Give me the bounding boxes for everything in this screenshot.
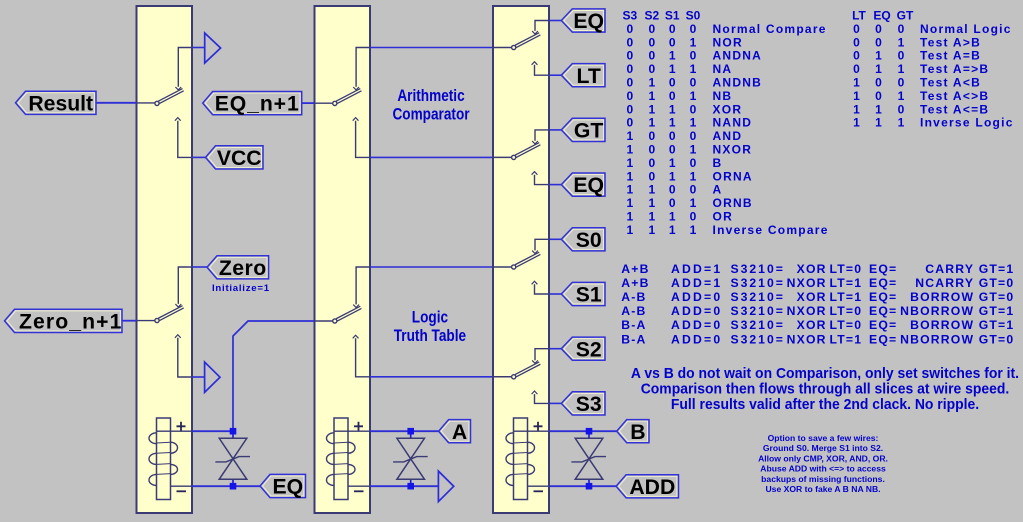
svg-text:B-AADD=0S3210=XORLT=0EQ=BORROW: B-AADD=0S3210=XORLT=0EQ=BORROWGT=1 xyxy=(621,318,1014,332)
relay coil L3 xyxy=(506,418,543,500)
svg-text:GT: GT xyxy=(574,120,603,143)
note comparison timing xyxy=(631,366,1019,413)
svg-text:LTEQGT: LTEQGT xyxy=(852,9,914,23)
svg-text:0011NA: 0011NA xyxy=(626,62,732,76)
svg-text:Logic: Logic xyxy=(412,308,448,326)
svg-text:Ground S0. Merge S1 into S2.: Ground S0. Merge S1 into S2. xyxy=(763,443,883,453)
svg-text:1100A: 1100A xyxy=(626,183,722,197)
wire L3+ to B label xyxy=(514,430,617,432)
svg-text:LT: LT xyxy=(576,65,600,88)
relay coil L2 xyxy=(327,418,364,500)
svg-text:111Inverse Logic: 111Inverse Logic xyxy=(853,116,1013,130)
svg-text:Truth Table: Truth Table xyxy=(394,327,466,345)
net label ADD xyxy=(616,475,678,499)
wire L3- to ADD label xyxy=(528,485,617,487)
svg-text:Zero: Zero xyxy=(219,257,267,280)
bidirectional diode D1 xyxy=(215,428,250,490)
switch SW5 (EQ/LT select) xyxy=(512,21,562,76)
svg-text:A+BADD=1S3210=NXORLT=1EQ=NCARR: A+BADD=1S3210=NXORLT=1EQ=NCARRYGT=0 xyxy=(621,276,1014,290)
heading Arithmetic Comparator xyxy=(392,87,469,124)
wire SW4 pivot to diode D1 node xyxy=(233,321,332,429)
svg-text:Comparator: Comparator xyxy=(392,105,469,123)
svg-text:S1: S1 xyxy=(576,284,602,307)
svg-text:Use XOR to fake A B NA NB.: Use XOR to fake A B NA NB. xyxy=(765,484,880,494)
net label A xyxy=(439,420,471,444)
svg-text:0111NAND: 0111NAND xyxy=(626,116,752,130)
svg-text:EQ: EQ xyxy=(573,174,604,197)
svg-text:Initialize=1: Initialize=1 xyxy=(212,283,270,294)
buffer amplifier B1 xyxy=(205,33,221,63)
svg-text:100Test A<B: 100Test A<B xyxy=(853,76,981,90)
relay coil L1 xyxy=(149,418,186,500)
svg-text:0101NB: 0101NB xyxy=(626,89,732,103)
note wire-saving options xyxy=(758,433,888,494)
bidirectional diode D3 xyxy=(571,428,606,490)
table arithmetic mode settings xyxy=(621,262,1014,347)
net label VCC xyxy=(206,146,264,170)
switch SW8 (S2/S3 select) xyxy=(512,349,562,404)
svg-text:0100ANDNB: 0100ANDNB xyxy=(626,76,762,90)
svg-text:S3: S3 xyxy=(576,393,602,416)
svg-text:ADD: ADD xyxy=(629,476,675,499)
net label S2 (stack 7) xyxy=(561,337,605,361)
switch SW1 (Result hold) xyxy=(155,48,206,158)
svg-text:Arithmetic: Arithmetic xyxy=(397,87,464,105)
svg-text:S3S2S1S0: S3S2S1S0 xyxy=(622,9,700,23)
svg-text:EQ: EQ xyxy=(573,10,604,33)
wire L1+ to D1/EQ net xyxy=(157,430,234,432)
net label S1 (stack 6) xyxy=(561,282,605,306)
svg-text:101Test A<>B: 101Test A<>B xyxy=(853,89,989,103)
svg-text:A: A xyxy=(452,421,467,444)
net label Zero xyxy=(207,256,269,280)
bidirectional diode D2 xyxy=(393,428,428,490)
svg-text:1101ORNB: 1101ORNB xyxy=(626,196,752,210)
net label EQ (slice1 out) xyxy=(260,474,306,498)
switch SW6 (GT/EQ select) xyxy=(512,130,562,185)
svg-text:1001NXOR: 1001NXOR xyxy=(626,143,752,157)
wire into SW6 pivot xyxy=(492,156,511,158)
net label S0 (stack 5) xyxy=(561,228,605,252)
net label GT (stack 3) xyxy=(561,118,605,142)
svg-text:A+BADD=1S3210=XORLT=0EQ=CARRYG: A+BADD=1S3210=XORLT=0EQ=CARRYGT=1 xyxy=(621,262,1014,276)
svg-text:EQ: EQ xyxy=(272,476,303,499)
svg-text:Allow only CMP, XOR, AND, OR.: Allow only CMP, XOR, AND, OR. xyxy=(758,453,888,463)
svg-text:010Test A=B: 010Test A=B xyxy=(853,49,981,63)
svg-text:Zero_n+1: Zero_n+1 xyxy=(19,311,123,334)
svg-text:1110OR: 1110OR xyxy=(626,210,733,224)
net label Zero_n+1 xyxy=(5,309,123,333)
svg-text:011Test A=>B: 011Test A=>B xyxy=(853,62,989,76)
buffer amplifier B3 xyxy=(438,471,453,502)
svg-text:backups of missing functions.: backups of missing functions. xyxy=(761,474,885,484)
svg-text:S2: S2 xyxy=(576,338,602,361)
svg-text:001Test A>B: 001Test A>B xyxy=(853,35,981,49)
wire Result to SW1 xyxy=(96,102,155,104)
svg-text:110Test A<=B: 110Test A<=B xyxy=(853,102,989,116)
svg-text:0001NOR: 0001NOR xyxy=(626,35,742,49)
net label EQ_n+1 xyxy=(203,92,302,116)
svg-text:0110XOR: 0110XOR xyxy=(626,102,742,116)
wire into SW7 pivot xyxy=(492,266,511,268)
svg-text:1010B: 1010B xyxy=(626,156,722,170)
wire into SW8 pivot xyxy=(492,376,511,378)
wire L1- to EQ label xyxy=(171,485,261,487)
svg-text:S0: S0 xyxy=(576,229,602,252)
switch SW3 (EQ_n+1 select) xyxy=(333,48,493,158)
switch SW7 (S0/S1 select) xyxy=(512,239,562,294)
relay slice 1 (result/zero latch) xyxy=(137,6,193,513)
wire L2- to buffer xyxy=(348,485,438,487)
svg-text:Full results valid after the 2: Full results valid after the 2nd clack. … xyxy=(671,397,979,413)
svg-text:A-BADD=0S3210=NXORLT=0EQ=NBORR: A-BADD=0S3210=NXORLT=0EQ=NBORROWGT=1 xyxy=(621,304,1014,318)
svg-text:1000AND: 1000AND xyxy=(626,129,742,143)
net label B xyxy=(617,420,649,444)
net label Result xyxy=(16,91,97,115)
svg-text:EQ_n+1: EQ_n+1 xyxy=(215,93,300,116)
svg-text:A-BADD=0S3210=XORLT=1EQ=BORROW: A-BADD=0S3210=XORLT=1EQ=BORROWGT=0 xyxy=(621,290,1014,304)
switch SW2 (Zero hold) xyxy=(155,267,207,377)
svg-text:Comparison then flows through: Comparison then flows through all slices… xyxy=(641,381,1010,397)
relay slice 2 (arithmetic/logic) xyxy=(315,6,371,513)
svg-text:B-AADD=0S3210=NXORLT=1EQ=NBORR: B-AADD=0S3210=NXORLT=1EQ=NBORROWGT=0 xyxy=(621,332,1014,346)
table S3-S0 function select xyxy=(622,9,828,237)
svg-text:0000Normal Compare: 0000Normal Compare xyxy=(626,22,826,36)
svg-text:A vs B do not wait on Comparis: A vs B do not wait on Comparison, only s… xyxy=(631,366,1019,382)
svg-text:B: B xyxy=(630,421,645,444)
net label EQ (stack 4) xyxy=(561,173,605,197)
svg-text:0010ANDNA: 0010ANDNA xyxy=(626,49,762,63)
wire EQ_n+1 to SW3 xyxy=(302,102,333,104)
wire L2+ to A label xyxy=(334,430,439,432)
net label EQ (stack 1) xyxy=(561,9,605,33)
svg-text:Result: Result xyxy=(28,92,93,115)
note Initialize=1 xyxy=(212,283,270,294)
table LT EQ GT logic modes xyxy=(852,9,1014,130)
buffer amplifier B2 xyxy=(205,362,220,392)
relay slice 3 (select switches) xyxy=(493,6,549,513)
svg-text:000Normal Logic: 000Normal Logic xyxy=(853,22,1012,36)
net label LT (stack 2) xyxy=(561,64,605,88)
wire into SW5 pivot xyxy=(492,47,511,49)
svg-text:1111Inverse Compare: 1111Inverse Compare xyxy=(626,223,828,237)
svg-text:VCC: VCC xyxy=(217,147,262,170)
svg-text:Option to save a few wires:: Option to save a few wires: xyxy=(768,433,879,443)
net label S3 (stack 8) xyxy=(561,392,605,416)
svg-text:Abuse ADD with <=> to access: Abuse ADD with <=> to access xyxy=(760,464,886,474)
switch SW4 (logic select) xyxy=(333,267,493,377)
svg-text:1011ORNA: 1011ORNA xyxy=(626,169,752,183)
wire Zero_n+1 to SW2 xyxy=(122,320,155,322)
heading Logic Truth Table xyxy=(394,308,466,345)
